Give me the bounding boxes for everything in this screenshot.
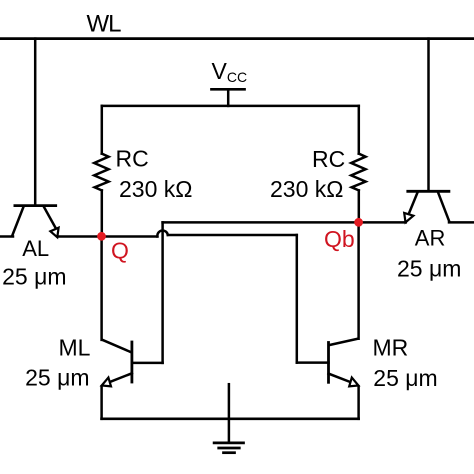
- wire right resistor top lead: [358, 106, 361, 154]
- transistor AL emitter diagonal: [44, 207, 56, 228]
- ground symbol bar 2: [219, 447, 240, 450]
- wire BL stub left of AL: [0, 235, 13, 238]
- wire Qb rail (cross wire to AR emitter): [163, 221, 406, 224]
- transistor AL base bar: [15, 204, 56, 207]
- svg-text:RC: RC: [312, 146, 345, 172]
- wire left resistor bottom lead to Q: [101, 190, 104, 236]
- transistor MR emitter diagonal: [329, 374, 350, 382]
- transistor ML base bar: [130, 342, 133, 382]
- ground symbol bar 1: [214, 442, 243, 445]
- node Qb dot: [354, 218, 363, 227]
- transistor AR base bar: [408, 190, 449, 193]
- wire MR base lead: [297, 361, 329, 364]
- wire Q to MR base (horizontal after hop): [168, 234, 297, 237]
- transistor MR collector diagonal: [329, 339, 358, 346]
- wire Q node down to ML collector: [100, 237, 103, 340]
- svg-text:ML: ML: [59, 334, 91, 360]
- wire hop over cross wire: [157, 231, 167, 237]
- resistor RC left: [94, 154, 108, 191]
- wire ground stem: [228, 384, 231, 443]
- transistor ML collector diagonal: [102, 340, 131, 353]
- wire ML emitter down: [100, 387, 103, 419]
- svg-text:25 μm: 25 μm: [2, 264, 66, 290]
- transistor MR emitter arrowhead: [349, 378, 358, 387]
- svg-text:25 μm: 25 μm: [397, 256, 461, 282]
- wire WL rail: [0, 37, 474, 40]
- wire VCC stub: [227, 89, 230, 106]
- wire MR emitter down: [357, 387, 360, 419]
- power VCC bar: [212, 88, 245, 91]
- node Q dot: [97, 232, 106, 241]
- transistor MR base bar: [327, 343, 330, 383]
- transistor AR emitter diagonal: [408, 193, 417, 216]
- wire Q-to-MR-base vertical: [296, 235, 299, 363]
- resistor RC right: [351, 154, 365, 191]
- ground symbol bar 3: [224, 451, 235, 454]
- wire VCC rail: [102, 105, 359, 108]
- wire AL gate from WL: [34, 39, 37, 205]
- wire AR gate from WL: [427, 39, 430, 191]
- transistor ML emitter arrowhead: [102, 378, 111, 387]
- svg-text:AL: AL: [22, 236, 49, 261]
- svg-text:AR: AR: [415, 225, 446, 250]
- transistor AR collector diagonal: [438, 193, 449, 221]
- wire left resistor top lead: [101, 106, 104, 154]
- wire Qb node down to MR collector: [357, 222, 360, 338]
- wire Q rail (AL emitter to hop): [58, 235, 158, 238]
- wire ground rail: [102, 417, 359, 420]
- transistor AL collector diagonal: [12, 207, 23, 235]
- svg-text:25 μm: 25 μm: [25, 365, 89, 391]
- transistor ML emitter diagonal: [111, 373, 132, 381]
- svg-text:230 kΩ: 230 kΩ: [119, 176, 192, 202]
- svg-text:RC: RC: [116, 145, 149, 171]
- wire BR stub right of AR: [449, 221, 474, 224]
- wire right resistor bottom lead to Qb: [358, 190, 361, 222]
- svg-text:Q: Q: [111, 237, 129, 263]
- wire Qb-to-ML-base vertical: [161, 222, 164, 363]
- svg-text:MR: MR: [373, 335, 409, 361]
- svg-text:230 kΩ: 230 kΩ: [270, 176, 343, 202]
- svg-text:25 μm: 25 μm: [373, 365, 437, 391]
- svg-text:WL: WL: [87, 11, 122, 38]
- svg-text:Qb: Qb: [324, 226, 355, 252]
- wire ML base lead: [132, 362, 163, 365]
- transistor AR emitter arrowhead: [404, 213, 413, 223]
- transistor AL emitter arrowhead: [50, 228, 58, 238]
